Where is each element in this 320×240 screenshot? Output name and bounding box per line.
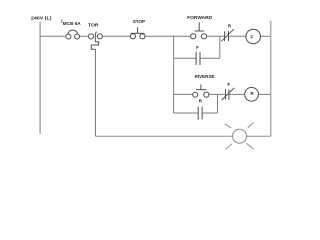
svg-text:R: R <box>250 91 254 96</box>
svg-text:F: F <box>227 82 230 87</box>
svg-text:TOR: TOR <box>88 22 99 28</box>
svg-text:FORWARD: FORWARD <box>187 15 213 21</box>
svg-text:RIVERSE: RIVERSE <box>195 74 216 80</box>
svg-text:R: R <box>228 23 232 28</box>
svg-text:F: F <box>251 35 254 40</box>
svg-text:F: F <box>196 45 199 50</box>
svg-text:STOP: STOP <box>133 19 146 25</box>
svg-text:240V (L): 240V (L) <box>31 16 52 22</box>
svg-text:R: R <box>199 98 203 103</box>
svg-text:MCB 6A: MCB 6A <box>63 21 82 27</box>
